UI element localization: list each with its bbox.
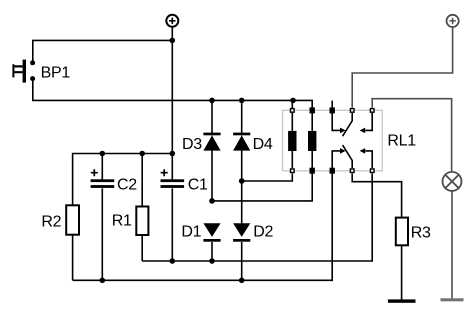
node D2 bottom: [239, 278, 245, 284]
resistor R1: [136, 207, 148, 236]
node junction at (172.3,40.4): [170, 38, 176, 44]
wire R1 top stub: [141, 154, 143, 207]
wire main vertical from junction down to C1 top: [171, 40, 173, 180]
relay coil 2: [308, 113, 316, 168]
diode D3: [203, 100, 220, 201]
wire coil1 top pin up to bus: [291, 100, 293, 108]
power symbol +V top-left: [166, 15, 178, 41]
ground (lamp, gray): [441, 298, 464, 301]
wire jog from bus end to coil2 top pin: [293, 100, 312, 108]
svg-text:R1: R1: [112, 213, 132, 230]
node bus/D4: [239, 98, 245, 104]
relay top contact: [332, 113, 372, 136]
ground (R3, black): [388, 299, 416, 302]
relay bottom contact: [332, 145, 372, 168]
power symbol +V top-right (gray): [447, 15, 459, 27]
svg-text:C2: C2: [117, 177, 137, 194]
capacitor C1: [161, 169, 185, 261]
wire C2 top stub: [101, 154, 103, 181]
relay pin stub top of pin3: [331, 101, 333, 111]
diode D1: [203, 223, 220, 261]
node C2 top: [100, 151, 106, 157]
lamp: [443, 172, 462, 191]
resistor R3: [396, 218, 408, 246]
wire R1 bottom to wire1: [141, 235, 143, 261]
svg-text:R2: R2: [41, 213, 61, 230]
wire2: relay pin3 bottom down-left rail (y=280.3): [73, 174, 333, 281]
wire BP1 top to +V column: [33, 40, 173, 62]
wire lamp to ground: [451, 191, 453, 299]
node C1 bottom: [170, 258, 176, 264]
svg-text:RL1: RL1: [387, 133, 416, 150]
wire R2 top rail (y=153.5): [73, 154, 173, 206]
wire BP1 bottom down then bus to relay coil1 (y=100.4): [33, 79, 293, 101]
wire top-right power to relay common pin: [352, 27, 452, 108]
diode D2: [233, 223, 250, 280]
wire rail from D4 node to coil1 bottom pin (y=181): [242, 174, 293, 182]
relay pins top row: [291, 107, 375, 113]
relay pins bottom row: [291, 168, 375, 174]
node D4/coil1 junction: [239, 178, 245, 184]
pushbutton BP1: [13, 60, 35, 83]
svg-text:C1: C1: [188, 177, 208, 194]
svg-text:R3: R3: [411, 224, 431, 241]
svg-text:D4: D4: [253, 136, 273, 153]
svg-text:D1: D1: [181, 223, 201, 240]
svg-text:BP1: BP1: [41, 65, 71, 82]
relay RL1 box: [283, 110, 383, 171]
node C2 bottom: [100, 278, 106, 284]
node bus/D3: [209, 98, 215, 104]
node bus end at coil1 column: [290, 98, 296, 104]
svg-text:D3: D3: [182, 136, 202, 153]
diode D4: [233, 100, 250, 181]
capacitor C2: [91, 169, 115, 280]
relay coil 1: [288, 113, 296, 168]
node R1 top: [139, 151, 145, 157]
wire mid rail from D3/D1 node to coil2 bottom pin (y=200.9): [212, 174, 312, 201]
resistor R2: [66, 205, 79, 234]
wire relay common bottom to R3: [352, 174, 401, 218]
svg-text:D2: D2: [253, 223, 273, 240]
wire relay pinB top to lamp: [372, 99, 451, 172]
node C1 column: [170, 151, 176, 157]
wire R2 bottom to wire2: [72, 235, 74, 281]
node D1 bottom: [209, 258, 215, 264]
node D3/D1 junction: [209, 198, 215, 204]
wire1: relay pinB bottom down-left rail (y=261): [142, 174, 372, 262]
wire D4 column through to D2: [241, 181, 243, 224]
wire R3 bottom to ground: [401, 245, 403, 299]
